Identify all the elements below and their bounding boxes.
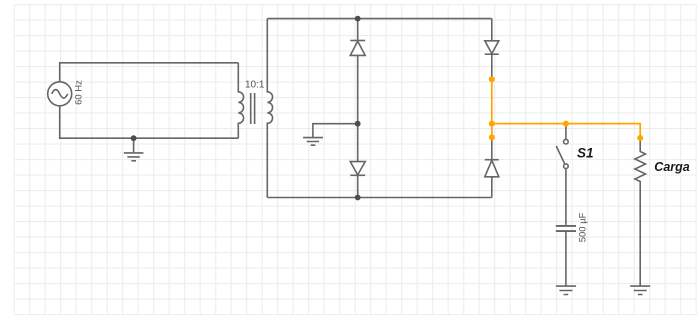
svg-text:500 µF: 500 µF: [578, 212, 589, 242]
svg-text:Carga: Carga: [654, 160, 689, 174]
svg-text:60 Hz: 60 Hz: [74, 80, 85, 105]
svg-text:S1: S1: [577, 146, 594, 161]
svg-text:10:1: 10:1: [245, 79, 265, 90]
